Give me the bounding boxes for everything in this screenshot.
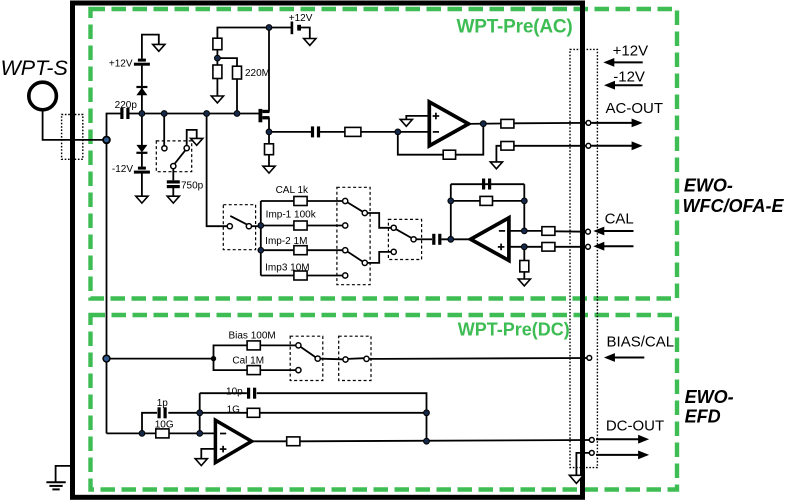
node summing input bbox=[197, 431, 203, 437]
svg-text:+12V: +12V bbox=[289, 13, 313, 24]
green dashed box WPT-Pre(AC) bbox=[91, 9, 678, 299]
node DC input tap bbox=[103, 355, 110, 362]
wire summing node column bbox=[199, 393, 201, 433]
wire AC-OUT line 2 to connector bbox=[514, 145, 586, 147]
U2 plus sign bbox=[498, 244, 505, 251]
resistor Imp3 10M bbox=[294, 271, 307, 280]
ground near +12V clamp bbox=[153, 44, 165, 51]
arrow BIAS/CAL in bbox=[604, 353, 644, 362]
wire U2 non-inverting to ground resistor bbox=[523, 247, 525, 261]
wire AC-OUT line 1 to connector bbox=[514, 122, 586, 124]
switch SW750 dashed box bbox=[156, 141, 191, 172]
capacitor 220p bbox=[120, 108, 129, 119]
resistor 220M bbox=[233, 66, 242, 79]
wire Imp-2 resistor to contact bbox=[307, 249, 343, 251]
switch SA dashed box bbox=[290, 336, 323, 380]
wire lower diode to -12V battery bbox=[141, 153, 143, 167]
connector DC-OUT 2 bbox=[589, 451, 594, 456]
resistor U2 plus to ground bbox=[520, 261, 529, 272]
wire source node to coupling cap bbox=[269, 131, 311, 133]
connector AC-OUT 1 bbox=[586, 121, 591, 126]
ground below source resistor bbox=[263, 166, 275, 173]
resistor Cal 1M bbox=[247, 366, 260, 375]
svg-text:CAL 1k: CAL 1k bbox=[276, 185, 309, 196]
wire U2 inverting column bbox=[523, 184, 525, 231]
wire switch SB to BIAS/CAL connector bbox=[369, 357, 587, 360]
op-amp U1 bbox=[429, 102, 468, 146]
node imp tap bbox=[204, 111, 210, 117]
resistor Imp-2 1M bbox=[294, 246, 307, 255]
svg-text:220p: 220p bbox=[115, 100, 138, 111]
wire branch Imp-1 bbox=[261, 225, 294, 227]
wire 220M to gate rail bbox=[236, 79, 238, 114]
svg-text:+12V: +12V bbox=[613, 43, 648, 60]
S2 contact Imp3 bbox=[343, 273, 348, 278]
wire 1p cap to summing node bbox=[168, 412, 199, 414]
diode D2 to -12V bbox=[136, 145, 147, 153]
switch S1 left contact bbox=[227, 224, 232, 229]
chassis earth ground bbox=[46, 482, 65, 489]
capacitor 1p bbox=[158, 407, 167, 418]
switch SB right contact bbox=[364, 356, 369, 361]
node bus Imp-1 bbox=[258, 223, 264, 229]
wire top bias rail bbox=[217, 28, 291, 39]
resistor CAL line1 bbox=[542, 227, 555, 236]
switch SW750 blade bbox=[175, 150, 186, 164]
node U2 inverting bbox=[521, 228, 527, 234]
wire U2 feedback res branch left bbox=[451, 200, 480, 202]
node 750p tap bbox=[161, 111, 167, 117]
resistor CAL 1k bbox=[294, 197, 307, 206]
wire U2 feedback cap branch bbox=[451, 183, 525, 185]
switch SW750 right contact bbox=[184, 146, 189, 151]
wire rail to 750p switch contact bbox=[163, 114, 165, 146]
resistor AC return bbox=[501, 142, 514, 151]
wire U2 inverting input to CAL resistor bbox=[509, 230, 542, 232]
wire main AC rail to JFET gate bbox=[130, 113, 259, 115]
selector dashed box S2 bbox=[337, 187, 370, 284]
wire U2 feedback res branch right bbox=[493, 200, 525, 202]
green dashed box WPT-Pre(DC) bbox=[91, 315, 678, 490]
resistor U1 input bbox=[345, 127, 361, 136]
wire switch SA common to switch SB bbox=[320, 358, 343, 361]
wire U2 non-inverting input to CAL resistor2 bbox=[509, 246, 542, 248]
wire +12V battery top to ground bbox=[142, 35, 159, 59]
wire main rail to lower diode bbox=[141, 114, 143, 146]
svg-text:-12V: -12V bbox=[613, 69, 645, 86]
resistor Bias 100M bbox=[247, 341, 260, 350]
node 220M tap bbox=[234, 111, 240, 117]
wire selector blade2 link bbox=[367, 252, 391, 263]
resistor divider lower bbox=[213, 65, 222, 79]
wire 750p switch common to capacitor bbox=[172, 169, 174, 181]
sensor circle bbox=[29, 82, 57, 110]
wire DC node to bias branch point bbox=[107, 358, 214, 360]
S2 blade1 bbox=[348, 202, 363, 211]
switch S1 dashed box bbox=[223, 205, 255, 250]
wire sensor to input node bbox=[43, 110, 104, 140]
wire U2 ground resistor to ground bbox=[523, 272, 525, 279]
svg-text:DC-OUT: DC-OUT bbox=[606, 417, 664, 434]
node feedback output right bbox=[424, 438, 430, 444]
wire divider lower resistor to ground bbox=[216, 79, 218, 97]
capacitor 10p bbox=[247, 388, 256, 399]
svg-text:WPT-S: WPT-S bbox=[1, 56, 69, 80]
wire divider resistors joint bbox=[216, 50, 218, 65]
op-amp U2 mirrored bbox=[471, 218, 509, 261]
wire source resistor to ground bbox=[268, 155, 270, 167]
switch S1 right contact bbox=[246, 224, 251, 229]
arrow CAL 2 bbox=[593, 242, 633, 251]
op-amp U3 bbox=[215, 420, 251, 462]
S3 common contact bbox=[411, 237, 416, 242]
svg-text:-12V: -12V bbox=[112, 164, 133, 175]
connector CAL 2 bbox=[586, 244, 591, 249]
connector BIAS/CAL bbox=[587, 356, 592, 361]
wire rail down to impedance switch bbox=[207, 114, 227, 227]
ground at SW750 right bbox=[191, 138, 203, 145]
wire selector blade1 link bbox=[367, 213, 391, 228]
wire coupling cap to series resistor bbox=[320, 131, 345, 133]
svg-text:WPT-Pre(DC): WPT-Pre(DC) bbox=[458, 320, 570, 340]
U3 plus sign bbox=[220, 446, 227, 453]
arrow AC-OUT 1 bbox=[592, 119, 643, 128]
wire cal branch lower bbox=[214, 359, 248, 371]
U1 minus sign bbox=[433, 131, 439, 133]
arrow AC-OUT 2 bbox=[592, 141, 643, 150]
wire 10p branch right bbox=[257, 393, 427, 441]
svg-text:+12V: +12V bbox=[109, 58, 133, 69]
wire Imp-1 resistor to contact bbox=[307, 225, 343, 227]
wire chassis ground stub bbox=[56, 466, 72, 482]
wire 10p branch left bbox=[200, 392, 247, 394]
svg-text:750p: 750p bbox=[181, 180, 204, 191]
switch S1 blade bbox=[230, 216, 246, 224]
node U1 output bbox=[480, 121, 486, 127]
wire impedance bus vertical bbox=[260, 201, 262, 276]
wire U1 non-inverting input to ground bbox=[406, 116, 429, 120]
svg-text:220M: 220M bbox=[245, 68, 270, 79]
feedthrough dotted box input bbox=[62, 115, 83, 160]
node diode clamp bbox=[139, 111, 145, 117]
battery +12V clamp bbox=[134, 59, 150, 66]
wire U1 feedback loop bbox=[398, 132, 443, 155]
wire bias branch upper bbox=[214, 345, 248, 358]
wire +12V battery to diode bbox=[141, 66, 143, 87]
node divider bbox=[215, 55, 221, 61]
wire U1 output to AC-OUT resistor bbox=[467, 123, 501, 125]
wire branch Imp-2 bbox=[261, 249, 294, 251]
node JFET source bbox=[266, 129, 272, 135]
wire switch S1 to bus bbox=[252, 225, 261, 227]
S3 upper contact bbox=[391, 225, 396, 230]
wire 10G resistor to summing node bbox=[169, 432, 215, 434]
svg-text:10p: 10p bbox=[226, 387, 243, 398]
transistor Q1 JFET bbox=[259, 109, 270, 122]
wire 750p capacitor to ground bbox=[172, 188, 174, 196]
arrow -12V in bbox=[604, 81, 643, 90]
wire 1p riser bbox=[142, 413, 157, 434]
resistor source bias bbox=[265, 144, 274, 155]
wire input node riser to AC rail bbox=[107, 114, 121, 140]
connector AC-OUT 2 bbox=[586, 143, 591, 148]
wire JFET source to node bbox=[268, 118, 270, 144]
wire U1 feedback resistor to output bbox=[456, 124, 484, 155]
svg-text:Bias 100M: Bias 100M bbox=[228, 331, 275, 342]
battery -12V clamp bbox=[134, 167, 150, 174]
wire 1G branch right bbox=[259, 412, 427, 414]
ground below divider bbox=[211, 96, 223, 103]
wire CAL resistor1 to connector bbox=[555, 230, 586, 232]
svg-text:BIAS/CAL: BIAS/CAL bbox=[607, 334, 675, 351]
capacitor U2 feedback bbox=[482, 179, 491, 190]
svg-text:EWO-: EWO- bbox=[684, 175, 733, 195]
ground for +12V rail bbox=[304, 39, 316, 46]
wire branch Imp3 bbox=[261, 275, 294, 277]
node summing 1p-1G bbox=[197, 410, 203, 416]
U1 plus sign bbox=[433, 113, 440, 120]
U2 minus sign bbox=[499, 230, 505, 232]
switch SA bias contact bbox=[296, 343, 301, 348]
wire DC-OUT return to ground bbox=[576, 453, 589, 475]
resistor AC-OUT series bbox=[501, 119, 514, 128]
capacitor 750p bbox=[167, 180, 180, 188]
resistor U2 feedback bbox=[480, 196, 493, 205]
node bus Imp-2 bbox=[258, 247, 264, 253]
node U2 output upper bbox=[448, 198, 454, 204]
wire Bias resistor to switch bbox=[260, 344, 296, 346]
S2 blade2 bbox=[348, 252, 363, 262]
wire U3 non-inverting to ground bbox=[201, 449, 215, 459]
svg-text:1G: 1G bbox=[227, 404, 241, 415]
switch SA cal contact bbox=[296, 368, 301, 373]
node bias branch bbox=[211, 356, 216, 361]
wire CAL resistor2 to connector bbox=[555, 246, 586, 248]
wire -12V battery to ground bbox=[141, 173, 143, 196]
resistor CAL line2 bbox=[542, 243, 555, 252]
S2 contact Imp-2 bbox=[343, 248, 348, 253]
resistor 1G bbox=[247, 408, 260, 417]
node U2 feedback join bbox=[521, 198, 527, 204]
ground at AC return resistor bbox=[490, 162, 502, 169]
S2 blade1 common bbox=[362, 210, 367, 215]
switch SB blade bbox=[348, 357, 364, 360]
S2 contact Imp-1 bbox=[343, 223, 348, 228]
wire Cal resistor to switch bbox=[260, 369, 296, 371]
S3 blade bbox=[396, 229, 412, 238]
wire JFET drain bbox=[268, 28, 270, 112]
ground at U3 non-inverting bbox=[195, 459, 207, 466]
wire Imp3 resistor to contact bbox=[307, 275, 343, 277]
node U2 output lower bbox=[448, 236, 454, 242]
wire divider node to 220M bbox=[217, 58, 237, 66]
main enclosure box bbox=[73, 3, 583, 497]
arrow DC-OUT 2 bbox=[596, 451, 649, 460]
svg-text:AC-OUT: AC-OUT bbox=[606, 100, 664, 117]
wire DC input bottom to 10G node bbox=[107, 432, 156, 434]
switch SW750 common contact bbox=[171, 164, 176, 169]
svg-text:EFD: EFD bbox=[685, 407, 721, 427]
diode D1 to +12V bbox=[136, 87, 147, 95]
node feedback 1G right bbox=[424, 410, 430, 416]
svg-text:WPT-Pre(AC): WPT-Pre(AC) bbox=[456, 17, 572, 38]
switch SB left contact bbox=[343, 357, 348, 362]
capacitor coupling AC bbox=[311, 126, 320, 137]
ground DC-OUT return bbox=[569, 475, 583, 483]
node input bbox=[103, 137, 110, 144]
S3 lower contact bbox=[391, 249, 396, 254]
wire AC return resistor to ground bbox=[496, 146, 501, 162]
capacitor CAL coupling bbox=[432, 234, 441, 245]
ground at U1 non-inverting bbox=[400, 119, 412, 126]
arrow DC-OUT 1 bbox=[596, 435, 649, 444]
wire +12V battery2 to ground bbox=[301, 28, 310, 39]
node +12V rail bbox=[266, 25, 272, 31]
svg-text:EWO-: EWO- bbox=[685, 387, 734, 407]
resistor divider upper bbox=[213, 38, 222, 50]
S2 contact CAL1k bbox=[343, 198, 348, 203]
ground below -12V battery bbox=[136, 196, 148, 203]
wire branch CAL 1k bbox=[261, 200, 294, 202]
wire series resistor to op-amp U1 inverting input bbox=[361, 131, 429, 133]
wire 1G branch left bbox=[200, 412, 248, 414]
svg-text:Imp-1 100k: Imp-1 100k bbox=[266, 210, 317, 221]
wire selector common to CAL coupling cap bbox=[416, 238, 432, 240]
ground below U2 plus resistor bbox=[518, 279, 530, 286]
S2 blade2 common bbox=[362, 260, 367, 265]
connector DC-OUT 1 bbox=[589, 438, 594, 443]
battery +12V rail bbox=[291, 22, 301, 35]
U3 minus sign bbox=[220, 433, 226, 435]
wire input column down to DC section bbox=[106, 140, 108, 434]
node U2 non-inverting bbox=[521, 244, 527, 250]
arrow CAL 1 bbox=[593, 227, 633, 236]
wire clamp diode column upper bbox=[141, 87, 143, 114]
resistor DC-OUT series bbox=[287, 437, 300, 446]
arrow +12V in bbox=[603, 58, 642, 67]
selector dashed box S3 bbox=[388, 219, 421, 259]
switch SA blade bbox=[301, 347, 316, 357]
svg-text:WFC/OFA-E: WFC/OFA-E bbox=[683, 196, 785, 216]
wire DC-OUT line bbox=[300, 440, 589, 441]
resistor U1 feedback bbox=[443, 150, 455, 159]
wire CAL cap to U2 output bbox=[442, 238, 471, 240]
node U1 inverting bbox=[395, 129, 401, 135]
ground below 750p bbox=[167, 196, 179, 203]
wire CAL 1k resistor to contact bbox=[307, 200, 343, 202]
connector CAL 1 bbox=[586, 229, 591, 234]
wire U2 output node column bbox=[450, 184, 452, 239]
switch SA common contact bbox=[315, 356, 320, 361]
switch SW750 left contact bbox=[162, 146, 167, 151]
svg-text:CAL: CAL bbox=[605, 210, 634, 227]
node 10G left bbox=[139, 431, 145, 437]
switch SB dashed box bbox=[339, 336, 371, 380]
wire U3 output to resistor bbox=[250, 440, 287, 442]
resistor Imp-1 100k bbox=[294, 221, 307, 230]
wire 750p switch right contact to ground bbox=[187, 130, 197, 146]
resistor 10G bbox=[156, 429, 169, 438]
feedthrough dotted box right bbox=[570, 49, 597, 467]
